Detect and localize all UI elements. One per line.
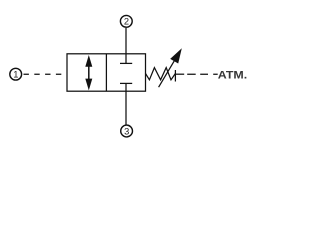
svg-text:ATM.: ATM.: [218, 70, 247, 82]
svg-text:1: 1: [13, 70, 18, 80]
svg-text:3: 3: [124, 126, 129, 136]
svg-text:2: 2: [124, 17, 129, 27]
